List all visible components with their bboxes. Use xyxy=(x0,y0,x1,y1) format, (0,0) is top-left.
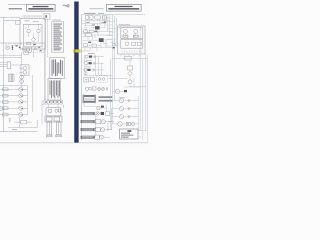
transistor Q204 xyxy=(97,105,107,112)
dashed module outline xyxy=(97,76,108,82)
connector J203 xyxy=(102,16,106,19)
IC U201 xyxy=(95,26,100,29)
transistor Q203 xyxy=(84,68,104,71)
resistor R102 xyxy=(7,62,10,69)
tube V203 xyxy=(125,42,141,46)
ladder rungs mid page xyxy=(105,18,117,46)
transistor Q101 xyxy=(27,29,31,33)
output driver rows Q107-Q111 xyxy=(0,87,28,116)
capacitor C102 xyxy=(9,119,11,123)
junction mark xyxy=(104,21,106,22)
sheet 2 title box xyxy=(90,4,142,11)
small lamp xyxy=(34,48,36,50)
main supply bus wire xyxy=(0,42,45,44)
wire row mid xyxy=(82,31,112,36)
IC U202 xyxy=(99,38,104,42)
page bottom shadow xyxy=(0,142,147,144)
long verticals mid page xyxy=(111,15,117,130)
transistor Q103 xyxy=(6,46,10,50)
transistor Q112 edge xyxy=(0,106,3,110)
U101 internal wires xyxy=(25,24,42,47)
title block xyxy=(120,129,138,139)
wires at U202 xyxy=(82,40,112,48)
wires at U201 xyxy=(84,23,105,33)
parts list table xyxy=(50,57,64,78)
wire xyxy=(0,75,28,87)
indicator xyxy=(132,122,135,125)
indicator lamp xyxy=(85,73,87,75)
cable bus verticals xyxy=(95,108,114,137)
power amp block U203 xyxy=(118,26,145,54)
WD handwritten mark xyxy=(63,5,67,6)
spine divider band xyxy=(74,1,79,142)
choke L201 xyxy=(99,96,113,99)
U203 top label xyxy=(119,23,130,26)
wire from T201 secondary xyxy=(84,103,97,106)
U101 top pin stubs xyxy=(22,17,42,19)
chain wires xyxy=(124,70,140,87)
connector J101 small box xyxy=(44,14,50,19)
pin list table label xyxy=(53,19,61,22)
tube V202 xyxy=(133,29,138,37)
bus wire row xyxy=(112,58,147,60)
resistor R104 xyxy=(24,51,28,54)
transistor Q106 xyxy=(20,80,24,84)
oscillator X201 xyxy=(86,33,92,36)
wires from J101 down xyxy=(46,19,48,100)
output transistor Q208 xyxy=(112,115,139,119)
capacitor C101 xyxy=(22,47,23,50)
driver bus wire xyxy=(28,75,33,115)
wire vertical feed xyxy=(84,55,112,75)
pin list table xyxy=(52,22,64,52)
dashed signal wire xyxy=(28,52,44,54)
junction dots xyxy=(12,45,13,50)
small dark mark 2 xyxy=(88,42,91,43)
neon lamp NE201 xyxy=(113,43,116,46)
relay box K201 xyxy=(84,78,89,82)
wire to T101 xyxy=(42,100,63,124)
IC U101 outline xyxy=(20,18,45,49)
resistor R206 xyxy=(128,66,133,70)
transistor Q102 xyxy=(37,29,41,33)
sheet 1 border xyxy=(0,17,37,131)
transistor Q201 xyxy=(85,53,104,75)
sheet 1 title box xyxy=(27,4,56,11)
page background xyxy=(0,0,150,150)
small cap C201 xyxy=(107,87,108,90)
cable row 3 xyxy=(81,127,110,131)
transistor Q105 xyxy=(20,75,24,79)
cable row 1 xyxy=(81,112,114,116)
choke L101 hatch box xyxy=(9,74,15,82)
top small text labels xyxy=(85,12,96,15)
wires to R102 xyxy=(0,63,21,67)
transformer T201 pictorial xyxy=(83,95,96,104)
diode D101 xyxy=(31,38,35,42)
U203 pin stubs xyxy=(121,54,139,57)
terminal strip TB101 xyxy=(44,100,63,104)
motor M201 xyxy=(85,87,91,90)
grid wires upper xyxy=(82,15,110,36)
side wire from U101 xyxy=(34,43,45,100)
resistor R203 xyxy=(84,44,88,47)
tube V201 xyxy=(123,29,128,37)
wire xyxy=(129,60,131,66)
connector J201 xyxy=(85,16,88,20)
transistor Q205 xyxy=(112,89,127,93)
bottom wires xyxy=(8,117,37,128)
cable row 2 xyxy=(81,119,112,123)
small label text xyxy=(12,128,17,131)
pre-driver box xyxy=(16,21,20,25)
wire xyxy=(130,86,145,88)
resistor R101 xyxy=(27,42,31,44)
small box above title block xyxy=(126,122,130,125)
switch S201 xyxy=(90,77,94,81)
output transistor Q206 xyxy=(112,97,139,103)
wire rows left xyxy=(0,52,22,65)
output transistor Q207 xyxy=(112,107,139,111)
wire row low xyxy=(82,47,112,51)
power transformer T101 pictorial xyxy=(49,104,59,107)
filter box FL201 xyxy=(95,16,101,19)
output bus xyxy=(139,96,141,131)
cable row 4 xyxy=(81,135,104,139)
page right edge xyxy=(146,55,148,143)
wire row xyxy=(82,35,112,40)
notes table xyxy=(48,78,61,100)
transistor Q202 xyxy=(85,62,105,76)
motor control chain: box xyxy=(125,56,132,60)
resistor R205 xyxy=(93,87,96,90)
sheet 2 top border wire xyxy=(82,14,145,16)
yellow bookmark tab xyxy=(74,49,82,52)
relay RY101 xyxy=(25,47,31,52)
resistor R202 xyxy=(89,30,93,33)
label mark xyxy=(86,31,90,34)
U101 bottom pin stubs xyxy=(23,49,44,52)
title block wires xyxy=(138,130,147,137)
resistor R204 xyxy=(92,44,96,47)
output transistor Q209 xyxy=(112,122,139,126)
wire row xyxy=(108,78,134,87)
choke L202 xyxy=(99,99,113,102)
bus drop wires xyxy=(6,43,21,46)
pilot lamps xyxy=(98,87,105,90)
resistor R201 xyxy=(84,30,88,33)
junction ticks xyxy=(86,22,104,25)
left border wire xyxy=(81,15,83,140)
motor M202 xyxy=(128,80,132,84)
dual transistor pack Q104 xyxy=(19,65,29,75)
connector J202 xyxy=(90,16,93,20)
component ticks row xyxy=(16,44,42,52)
small dark mark xyxy=(95,31,97,33)
diode D201 xyxy=(128,71,133,76)
right bus verticals xyxy=(140,26,147,140)
resistor R103 xyxy=(21,120,27,124)
sheet 1 title strip left cell xyxy=(8,4,27,6)
